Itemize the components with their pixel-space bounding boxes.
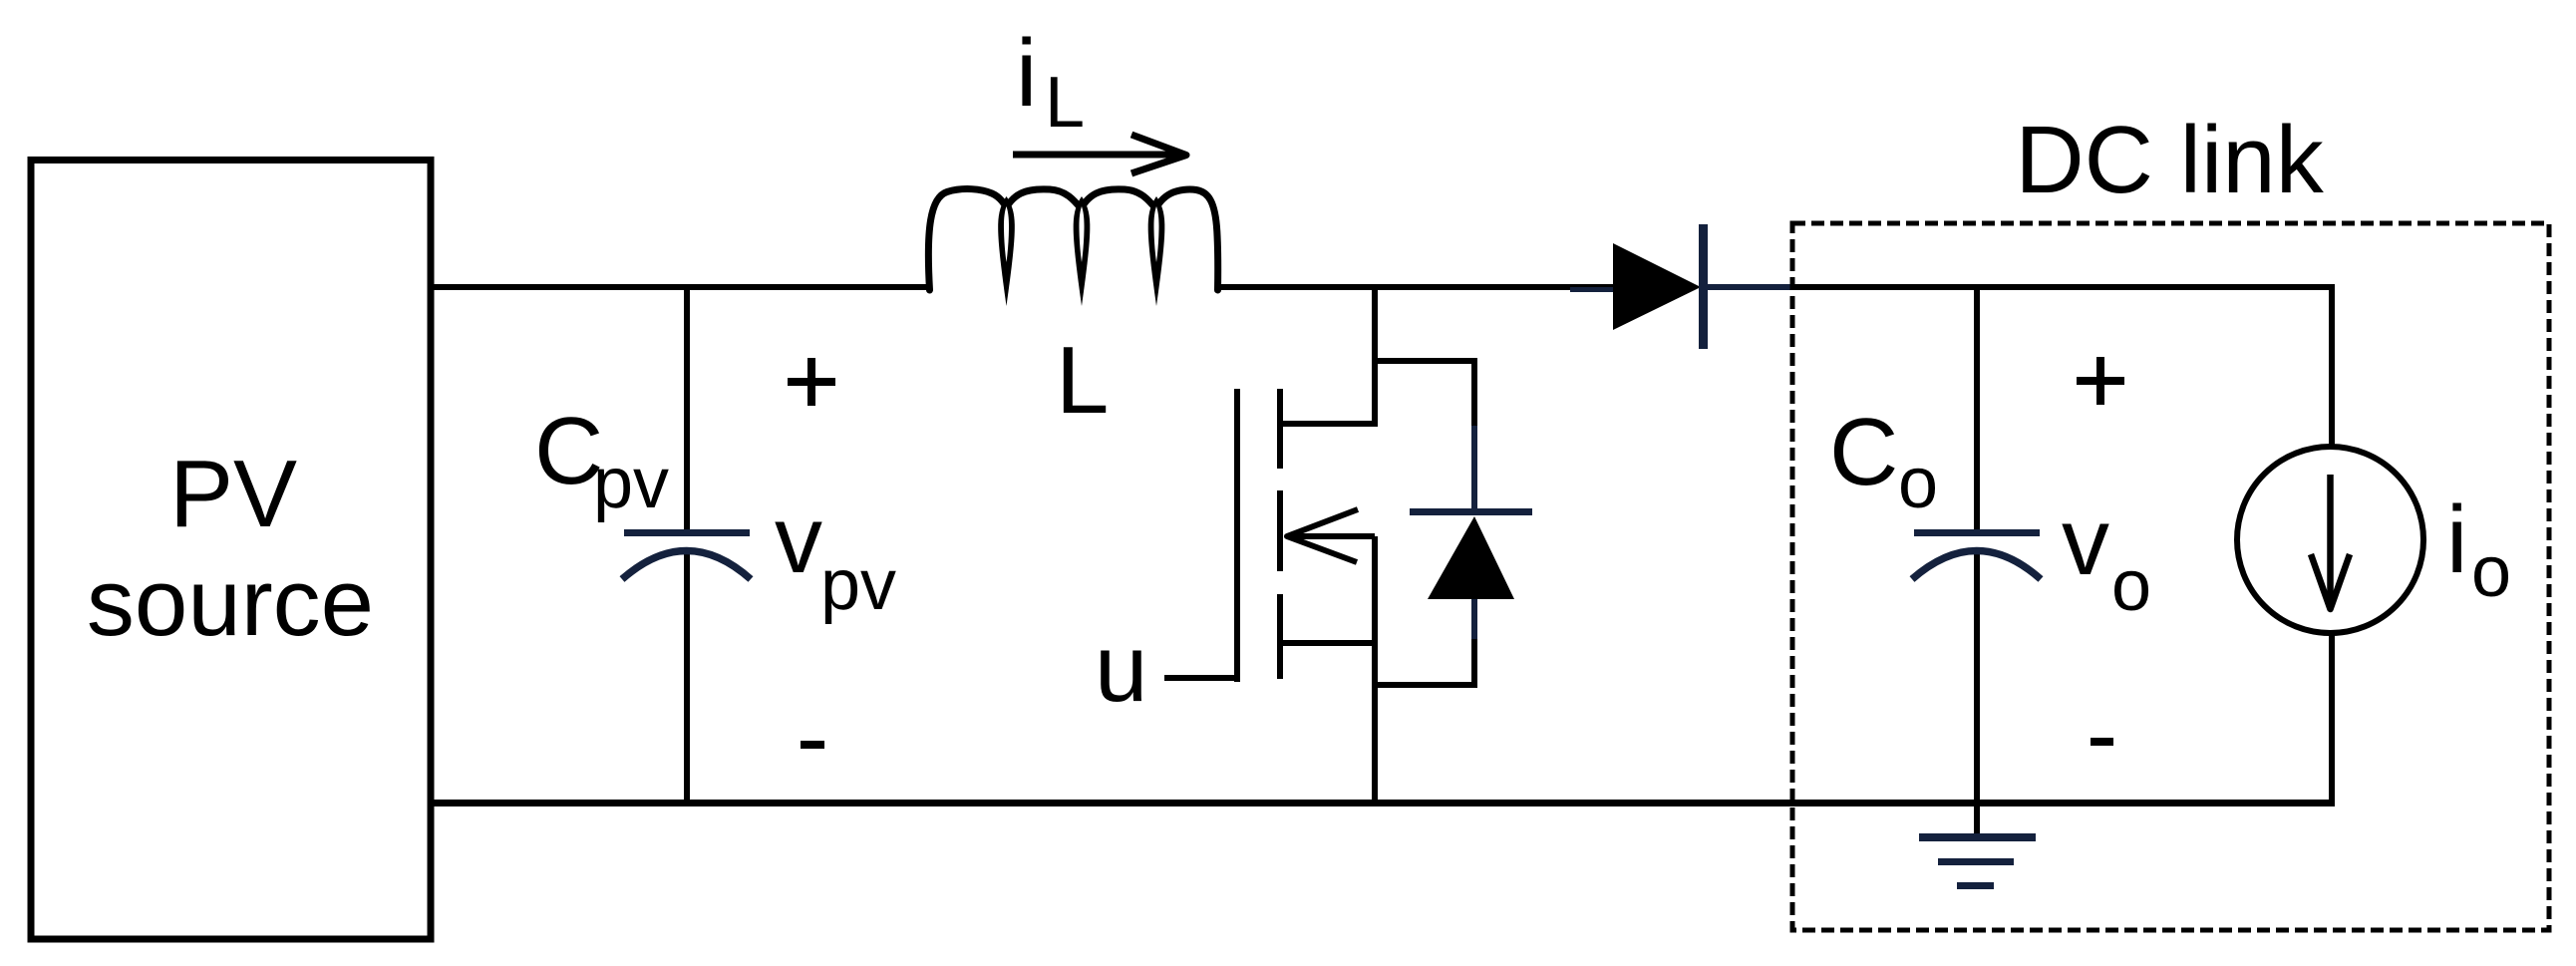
minus sign vo — [2091, 738, 2113, 746]
svg-text:v: v — [775, 486, 822, 593]
svg-text:i: i — [1016, 20, 1037, 127]
DC link dashed box — [1792, 223, 2549, 930]
svg-text:pv: pv — [593, 444, 669, 523]
capacitor Co plate — [1914, 529, 2040, 536]
body diode triangle — [1428, 516, 1514, 599]
wire: top rail inside DC link — [1792, 284, 2332, 290]
wire: body diode anode lead navy — [1471, 599, 1477, 639]
wire: body diode cathode lead navy — [1471, 426, 1477, 510]
current source arrow — [2311, 475, 2350, 609]
inductor L coil loops — [998, 196, 1164, 306]
wire: current source bottom lead — [2329, 631, 2335, 805]
svg-text:i: i — [2446, 486, 2467, 593]
svg-text:o: o — [2471, 532, 2511, 612]
current source circle — [2237, 447, 2423, 633]
minus sign vpv — [801, 741, 824, 749]
wire: bottom rail — [429, 800, 2335, 806]
plus sign vo — [2077, 357, 2124, 405]
wire: Co bottom lead through rail to ground — [1974, 549, 1980, 835]
svg-text:source: source — [87, 549, 374, 656]
MOSFET channel dashed bar — [1277, 389, 1283, 679]
wire: top rail from PV box to inductor — [432, 284, 929, 290]
plus sign vpv — [788, 358, 835, 406]
svg-text:C: C — [1829, 399, 1898, 505]
inductor L coil humps — [928, 189, 1217, 290]
svg-text:o: o — [1898, 444, 1938, 523]
MOSFET gate bar — [1234, 389, 1240, 682]
ground symbol — [1919, 833, 2036, 889]
PV source box — [31, 161, 431, 940]
svg-text:v: v — [2062, 488, 2109, 595]
wire: Cpv bottom lead — [684, 549, 690, 803]
svg-text:L: L — [1045, 63, 1085, 143]
capacitor Cpv plate — [624, 529, 750, 536]
capacitor Co arc — [1912, 551, 2041, 580]
wire: current source top lead — [2329, 284, 2335, 449]
svg-text:L: L — [1056, 327, 1109, 434]
arrow iL — [1013, 135, 1186, 173]
wire: source vertical to bottom rail — [1372, 536, 1378, 803]
wire: branch from body diode bottom — [1375, 639, 1474, 685]
svg-text:pv: pv — [820, 545, 896, 625]
capacitor Cpv arc — [622, 551, 751, 580]
body diode cathode bar — [1410, 508, 1532, 515]
wire: navy segment after diode cathode — [1708, 284, 1794, 290]
svg-text:o: o — [2111, 546, 2151, 626]
series diode D cathode bar — [1699, 224, 1708, 349]
svg-text:u: u — [1095, 615, 1147, 722]
wire: Cpv top lead — [684, 284, 690, 534]
wire: MOSFET drain lead — [1282, 284, 1375, 424]
wire: MOSFET source lead — [1282, 640, 1375, 646]
svg-text:DC link: DC link — [2015, 107, 2324, 213]
wire: gate lead u — [1164, 675, 1240, 681]
wire: navy anode underlay of series diode — [1570, 287, 1613, 292]
wire: Co top lead — [1974, 284, 1980, 534]
MOSFET body arrow — [1287, 509, 1375, 562]
svg-text:PV: PV — [169, 441, 297, 547]
series diode D triangle — [1613, 243, 1701, 330]
wire: top rail from inductor to series diode — [1217, 284, 1615, 290]
wire: branch to body diode top — [1375, 361, 1474, 427]
